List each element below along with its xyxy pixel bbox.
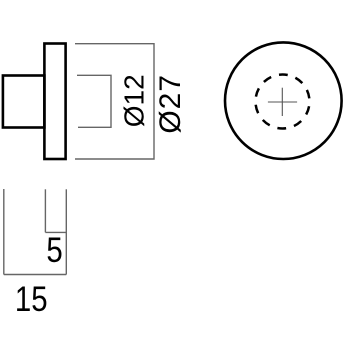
extension line flange-left (5) xyxy=(44,189,46,232)
svg-text:15: 15 xyxy=(15,279,48,318)
svg-text:Ø12: Ø12 xyxy=(119,74,150,127)
side view: flange (disc) rectangle xyxy=(44,44,65,160)
extension line flange-right xyxy=(65,189,67,274)
svg-text:Ø27: Ø27 xyxy=(154,74,187,134)
side view: stem rectangle xyxy=(3,76,45,128)
front view dashed circle O12 xyxy=(256,75,310,129)
front view outer circle O27 xyxy=(225,42,342,159)
dimension bracket O27 xyxy=(75,44,154,159)
dimension bracket O12 xyxy=(77,75,111,127)
dimension line 5 xyxy=(45,231,66,233)
extension line left (overall 15) xyxy=(3,189,5,275)
dimension line 15 xyxy=(4,274,67,276)
svg-text:5: 5 xyxy=(46,231,62,270)
crosshair vertical xyxy=(281,88,283,116)
crosshair horizontal xyxy=(268,101,297,103)
